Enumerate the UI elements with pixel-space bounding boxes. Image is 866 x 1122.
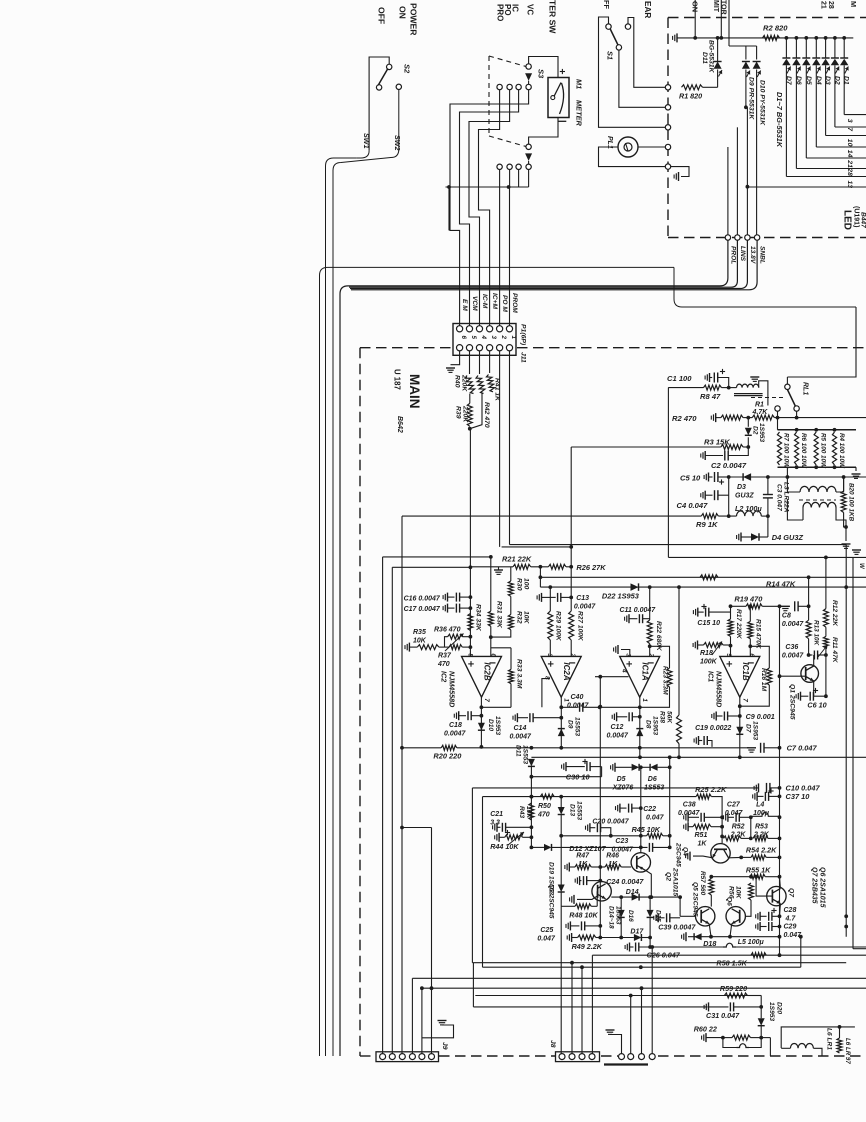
wire RL1 throw drop [796, 411, 798, 417]
svg-text:C19 0.0022: C19 0.0022 [695, 725, 731, 732]
transistor Q3 2SC945 [592, 882, 611, 901]
svg-text:C38: C38 [683, 802, 696, 809]
capacitor C37 10 [756, 792, 758, 801]
wire bus PROL group to left [340, 240, 728, 1056]
wire SW2 to left bus [333, 90, 399, 1057]
svg-text:14: 14 [846, 150, 853, 158]
svg-text:0.047: 0.047 [646, 815, 665, 822]
diode D10 1S953 [478, 723, 485, 731]
svg-text:S2: S2 [403, 64, 412, 74]
svg-text:R59 220: R59 220 [720, 984, 747, 993]
LED D4 [815, 38, 817, 58]
wire 777 line [531, 776, 601, 778]
diode D6 1S553 [639, 766, 650, 768]
svg-text:METER: METER [575, 100, 584, 127]
switch S3 dashed frame [489, 56, 526, 67]
resistor R4 100 10W [832, 432, 836, 465]
connector J11 pins bottom row [457, 345, 463, 351]
svg-text:R9 1K: R9 1K [696, 520, 718, 529]
resistor R5 100 10W [814, 432, 818, 465]
capacitor C30 10 [565, 762, 567, 771]
svg-text:10K: 10K [523, 611, 530, 625]
wire SNBL riser D10 [756, 70, 758, 235]
svg-text:1S953: 1S953 [768, 1002, 775, 1021]
wire J8 feeds [560, 906, 562, 1053]
resistor R12 22K [825, 557, 827, 608]
svg-text:4.7: 4.7 [785, 916, 797, 923]
svg-text:GU3Z: GU3Z [735, 493, 754, 500]
resistor R22 680K [649, 587, 651, 620]
svg-text:56K: 56K [666, 711, 673, 724]
transistor Q1 2SC945 [780, 675, 806, 677]
resistor R34 33K [468, 614, 473, 631]
svg-text:LINS: LINS [739, 246, 746, 262]
wire IC1B output column [739, 697, 741, 757]
svg-text:SW1: SW1 [362, 133, 371, 149]
svg-text:21: 21 [820, 1, 827, 9]
wire D3 output [825, 65, 827, 135]
svg-text:M: M [849, 1, 858, 7]
svg-text:R7 100 10W: R7 100 10W [783, 433, 790, 469]
svg-text:PRO: PRO [496, 4, 505, 21]
resistor R16 1M feedback [750, 646, 769, 668]
diode D9 [742, 62, 750, 69]
transistor Q6 [726, 907, 745, 926]
diode D8 1S953 [636, 729, 643, 737]
svg-text:R53: R53 [755, 824, 768, 831]
capacitor C12 0.0047 [616, 712, 618, 721]
svg-text:2: 2 [648, 652, 655, 657]
svg-text:FF: FF [602, 0, 611, 10]
svg-text:R8 47: R8 47 [700, 392, 721, 401]
wire line 267 right segment to 307 [674, 267, 856, 307]
svg-text:B20 100 1KB: B20 100 1KB [848, 483, 855, 522]
svg-text:L5 100μ: L5 100μ [738, 939, 765, 946]
wire jog to pin6 column [402, 827, 432, 829]
svg-text:R21 22K: R21 22K [502, 555, 532, 564]
svg-text:10K: 10K [525, 806, 532, 819]
svg-text:R44 10K: R44 10K [490, 842, 519, 851]
svg-text:3: 3 [490, 336, 497, 340]
resistor bank rails [777, 418, 779, 430]
wire D22 line 587 [540, 586, 866, 588]
svg-text:C6 10: C6 10 [807, 701, 826, 710]
svg-text:0.047: 0.047 [784, 932, 803, 939]
diode D9 1S553 [558, 729, 565, 737]
wire Q2 collector column [640, 767, 642, 852]
wire 757 line [531, 756, 866, 758]
svg-text:10K: 10K [413, 638, 427, 645]
svg-text:L6 LR1: L6 LR1 [826, 1028, 833, 1050]
svg-text:R49 2.2K: R49 2.2K [572, 942, 603, 951]
svg-text:D3: D3 [737, 484, 746, 491]
svg-text:IC1B: IC1B [741, 662, 750, 680]
switch S1 [606, 24, 611, 29]
wire loop bottom 967 [483, 966, 801, 968]
svg-text:C5 10: C5 10 [680, 474, 701, 483]
wire bus 978 [412, 977, 866, 979]
wire Q3 collector [601, 881, 603, 882]
ground inside LED board [671, 167, 689, 177]
svg-text:C22: C22 [643, 806, 656, 813]
svg-text:1S553: 1S553 [574, 717, 581, 736]
diode D7 1S953 [736, 727, 743, 735]
svg-text:R27 100K: R27 100K [576, 611, 583, 642]
diode D11 1S553 [528, 759, 535, 767]
svg-text:R25 2.2K: R25 2.2K [695, 785, 727, 794]
svg-text:C29: C29 [784, 924, 797, 931]
svg-text:D17: D17 [630, 929, 644, 936]
wire meter minus to S3 lower pole [529, 118, 558, 145]
svg-text:C12: C12 [611, 724, 624, 731]
wire RL1 common riser [786, 377, 788, 384]
wire top entry 2 [720, 0, 722, 38]
wire R1 to D11 [703, 86, 718, 88]
svg-text:5: 5 [467, 653, 474, 657]
svg-text:470: 470 [537, 812, 550, 819]
svg-text:R34 33K: R34 33K [475, 604, 482, 632]
svg-text:13.8V: 13.8V [749, 246, 756, 264]
wire Q2 emitter drop [645, 870, 652, 897]
diode D22 1S953 [631, 583, 639, 591]
wire R3 column 571 [570, 447, 572, 611]
resistor R61 [837, 1038, 842, 1053]
svg-text:0.0047: 0.0047 [782, 621, 805, 628]
wire C27 to R52 junction [750, 817, 752, 838]
resistor R27 100K [569, 611, 574, 640]
relay RL1 dashed link [751, 397, 783, 399]
transistor Q4 2SC945 [711, 844, 730, 863]
resistor R6 100 10W [795, 432, 799, 465]
svg-text:D10 PY-5531K: D10 PY-5531K [758, 80, 765, 126]
resistor R8 47 [668, 387, 703, 389]
svg-text:470: 470 [437, 661, 450, 668]
svg-text:R4 100 10W: R4 100 10W [838, 433, 845, 469]
wire to output transformer [761, 1037, 770, 1039]
svg-text:Q6: Q6 [726, 897, 733, 906]
wire C5 drop [728, 477, 730, 516]
svg-text:3: 3 [625, 653, 632, 657]
wire D22 drop 679 [678, 587, 680, 715]
resistor R58 1.5K [751, 953, 766, 958]
switch S2 [387, 64, 392, 69]
svg-text:R20 220: R20 220 [433, 752, 462, 761]
svg-text:L3 LR22A: L3 LR22A [783, 482, 790, 513]
resistor R41 1K [489, 351, 491, 373]
svg-text:MAIN: MAIN [407, 374, 422, 409]
svg-text:100K: 100K [700, 659, 718, 666]
op-amp IC2B [462, 656, 502, 697]
wire loop line bottom 963 [472, 962, 846, 964]
svg-text:C25: C25 [540, 927, 553, 934]
wire D4 drop [767, 516, 769, 537]
svg-text:6: 6 [460, 336, 467, 340]
svg-text:NJM4558D: NJM4558D [715, 671, 724, 707]
diode D4 GU3Z [740, 533, 742, 542]
wire D1 output [843, 65, 845, 114]
svg-text:R6 100 10W: R6 100 10W [800, 433, 807, 469]
wire IC2B output [480, 697, 482, 747]
svg-text:R15 470K: R15 470K [755, 619, 762, 650]
resistor R1 820 [682, 85, 703, 90]
lamp PL1 [618, 137, 638, 157]
svg-text:21: 21 [846, 159, 853, 168]
wire Q7 base [756, 877, 772, 896]
svg-text:R42 470: R42 470 [483, 402, 490, 428]
svg-text:7: 7 [741, 698, 748, 702]
svg-text:B642: B642 [396, 416, 403, 433]
resistor R7 100 10W [777, 432, 781, 465]
transformer L3 [787, 477, 800, 492]
wire 557 line to left bus [383, 556, 491, 558]
wire bank to lower rail [786, 467, 788, 477]
resistor R17 220K [730, 606, 732, 619]
svg-text:OFF: OFF [377, 7, 387, 24]
LED supply rail [676, 33, 678, 42]
svg-text:D14: D14 [626, 889, 639, 896]
svg-text:D4 GU3Z: D4 GU3Z [772, 533, 804, 542]
svg-text:ON: ON [398, 6, 408, 19]
resistor R14 47K [700, 575, 718, 580]
svg-text:D19 1S553: D19 1S553 [548, 862, 555, 895]
wire S1 left to LINS contact [599, 17, 666, 127]
svg-text:28: 28 [827, 1, 834, 9]
svg-text:R32: R32 [516, 611, 523, 624]
wire Q4 collector [729, 856, 742, 858]
svg-text:R17 220K: R17 220K [735, 609, 742, 640]
diodes D9 D10 PY-5531K feed [728, 0, 730, 46]
ground 4-pin connector [606, 1029, 615, 1031]
transistor Q7 2SB435 [767, 886, 786, 905]
svg-text:E M: E M [461, 299, 468, 311]
svg-text:2: 2 [500, 335, 507, 340]
svg-text:R39: R39 [455, 406, 462, 419]
wire Q7 collector emitter to rail [779, 877, 782, 889]
svg-text:IC2B: IC2B [483, 662, 492, 680]
capacitor C18 0.0047 [458, 711, 460, 720]
svg-text:R19 470: R19 470 [734, 595, 763, 604]
wire right bus 846 drop [845, 545, 847, 937]
svg-text:PROL: PROL [730, 246, 737, 264]
svg-text:C40: C40 [571, 694, 584, 701]
capacitor C10 0.047 [758, 783, 760, 792]
svg-text:0.0047: 0.0047 [782, 653, 805, 660]
capacitor C3 0.047 [763, 494, 773, 496]
capacitor C22 0.047 [619, 804, 621, 813]
wire IC2A output column [560, 697, 562, 747]
wire Q1 emitter to C6 node [814, 681, 826, 697]
svg-text:0.0047: 0.0047 [678, 810, 701, 817]
svg-text:1S953: 1S953 [494, 716, 501, 735]
wire pin2 drop [499, 351, 501, 547]
svg-text:R60 22: R60 22 [694, 1025, 717, 1034]
connector P1(6P) J11 box [453, 324, 516, 356]
capacitor C6 10 [800, 692, 802, 701]
wire D14 line to Q5 [679, 897, 681, 916]
MAIN board dashed border top [360, 347, 452, 349]
wire D2 output [834, 65, 836, 127]
ground R10 [845, 527, 847, 541]
diode D15 [649, 897, 651, 910]
svg-text:S1: S1 [606, 51, 615, 60]
wire Q3 base [596, 891, 598, 906]
wire SW1 to left bus [326, 158, 357, 1056]
svg-text:D1~7 BG-5531K: D1~7 BG-5531K [775, 92, 784, 148]
capacitor C13 0.0047 [541, 593, 543, 602]
svg-text:D13: D13 [568, 804, 575, 816]
resistor R33 3.3M [491, 647, 511, 649]
wire PL1 left loop [599, 147, 666, 167]
svg-text:NJM4558D: NJM4558D [448, 671, 457, 707]
wire D7 output [785, 65, 787, 176]
svg-text:1S953: 1S953 [752, 721, 759, 740]
svg-text:R38: R38 [659, 711, 666, 723]
capacitor C14 0.0047 [516, 713, 518, 722]
svg-text:D10: D10 [487, 719, 494, 731]
svg-text:0.0047: 0.0047 [607, 733, 630, 740]
wire D6 output [795, 65, 797, 168]
wire LINS drop [736, 127, 738, 235]
svg-text:J9: J9 [441, 1042, 448, 1050]
wire R26 node drop to 577/587 [539, 567, 541, 587]
wire R25 line 796 [483, 796, 697, 798]
wire loop line 788 drop [471, 788, 473, 963]
wire pin4 drop [411, 978, 413, 1053]
svg-text:1S553: 1S553 [575, 801, 582, 820]
svg-text:D16: D16 [627, 910, 634, 922]
transistor Q2 2SA1015 [631, 853, 650, 872]
LED D3 [825, 38, 827, 58]
svg-text:Q1 2SC945: Q1 2SC945 [789, 684, 796, 720]
ground IC1A plus [621, 650, 630, 657]
svg-text:C17 0.0047: C17 0.0047 [404, 606, 441, 613]
wire junction to pin6 jog [448, 187, 450, 230]
svg-text:P1(6P): P1(6P) [520, 324, 527, 346]
wire Q1 collector [813, 655, 815, 667]
svg-text:220K: 220K [462, 405, 469, 423]
svg-text:IC+M: IC+M [491, 293, 498, 309]
svg-text:R55 1K: R55 1K [746, 866, 771, 875]
svg-text:D22 1S953: D22 1S953 [602, 592, 640, 601]
wire 967 up to Q7 area [800, 937, 802, 968]
svg-text:D7: D7 [745, 724, 752, 733]
svg-text:5: 5 [725, 653, 732, 657]
coil L6 parallel [723, 1038, 737, 1048]
svg-text:Q7 2SB435: Q7 2SB435 [811, 867, 818, 904]
op-amp IC2A [541, 656, 581, 697]
svg-text:1: 1 [641, 698, 648, 702]
S3 lower contact row [497, 164, 502, 169]
diode D17 [634, 934, 642, 941]
svg-text:2SC945: 2SC945 [674, 842, 681, 867]
wire Q5 base [680, 915, 695, 917]
wire D4 output [815, 65, 817, 147]
wire L1 to contact [759, 381, 768, 406]
LED D6 [795, 38, 797, 58]
svg-text:SW2: SW2 [393, 135, 402, 151]
svg-text:6: 6 [748, 653, 755, 657]
LED D2 [834, 38, 836, 58]
svg-text:D2: D2 [752, 426, 759, 435]
resistor R10 100 [843, 477, 845, 491]
svg-text:D9: D9 [567, 720, 574, 729]
svg-text:10K: 10K [735, 886, 742, 900]
output transformer L7 [781, 1027, 855, 1048]
connector J9 pins [380, 1054, 386, 1060]
svg-text:LED: LED [842, 210, 853, 230]
wire 13.8V riser [746, 107, 748, 237]
wire 747 line right [481, 747, 749, 749]
capacitor C31 0.047 [708, 1002, 710, 1011]
wire L5 line left drop [651, 947, 653, 1054]
svg-text:J8: J8 [549, 1040, 556, 1048]
diode D14 [632, 894, 640, 901]
wire S1 right to R1 line [628, 18, 665, 88]
op-amp IC1B [720, 656, 760, 697]
wire loop 963 to bus drop [472, 963, 474, 1007]
wire line 307 to RL1 riser [787, 307, 856, 377]
svg-text:10: 10 [846, 139, 853, 147]
svg-text:SNBL: SNBL [759, 246, 766, 264]
resistor R40 220K [469, 351, 471, 374]
stubs lower contacts to junction line [499, 170, 501, 187]
wire 13 line [747, 186, 866, 188]
wire pin2 riser [499, 187, 501, 326]
wire bus 1007 [473, 1006, 707, 1008]
diode D11 BG-5531K [717, 38, 719, 61]
svg-text:C24 0.0047: C24 0.0047 [606, 877, 644, 886]
svg-text:R1 820: R1 820 [679, 92, 702, 101]
LED board contacts on left border [665, 85, 670, 90]
wire bus 996 [475, 995, 761, 997]
svg-text:D11: D11 [701, 52, 708, 64]
wire bus 988 [422, 987, 866, 989]
ground pin6 bottom [451, 351, 460, 365]
svg-text:C11 0.0047: C11 0.0047 [620, 607, 657, 614]
svg-text:C2 0.0047: C2 0.0047 [711, 461, 747, 470]
resistor R43 10K [529, 803, 534, 820]
svg-text:0.0047: 0.0047 [444, 731, 467, 738]
svg-text:D6: D6 [648, 776, 657, 783]
capacitor C2 0.0047 [704, 451, 706, 460]
S3 upper pole contact [526, 64, 531, 69]
svg-text:1K: 1K [698, 841, 708, 848]
wire loop line 788 [472, 787, 758, 789]
svg-text:R5 100 10W: R5 100 10W [820, 433, 827, 469]
capacitor C9 0.001 [715, 712, 717, 721]
svg-text:D8: D8 [645, 720, 652, 729]
svg-text:1S953: 1S953 [758, 423, 765, 442]
diode D13 1S553 [560, 797, 562, 807]
svg-text:R46: R46 [606, 853, 619, 860]
ground right edge [852, 549, 861, 551]
svg-text:C30 10: C30 10 [566, 773, 591, 782]
diode D19 1S553 [560, 836, 562, 885]
MAIN board dashed border left [359, 348, 361, 1056]
wire D11 column down [530, 777, 532, 848]
svg-text:R1: R1 [755, 402, 764, 409]
svg-text:R58 1.5K: R58 1.5K [716, 959, 747, 968]
resistor R13 10K [808, 577, 810, 620]
svg-text:100: 100 [523, 578, 530, 590]
connector J9 box [376, 1052, 439, 1062]
svg-text:C28: C28 [784, 907, 797, 914]
svg-text:D14~18: D14~18 [608, 906, 615, 929]
wire pin1 line 544 [510, 544, 847, 546]
diode D20 1S953 [760, 996, 762, 1019]
svg-text:R2 470: R2 470 [672, 414, 697, 423]
svg-text:R36 470: R36 470 [434, 627, 461, 634]
